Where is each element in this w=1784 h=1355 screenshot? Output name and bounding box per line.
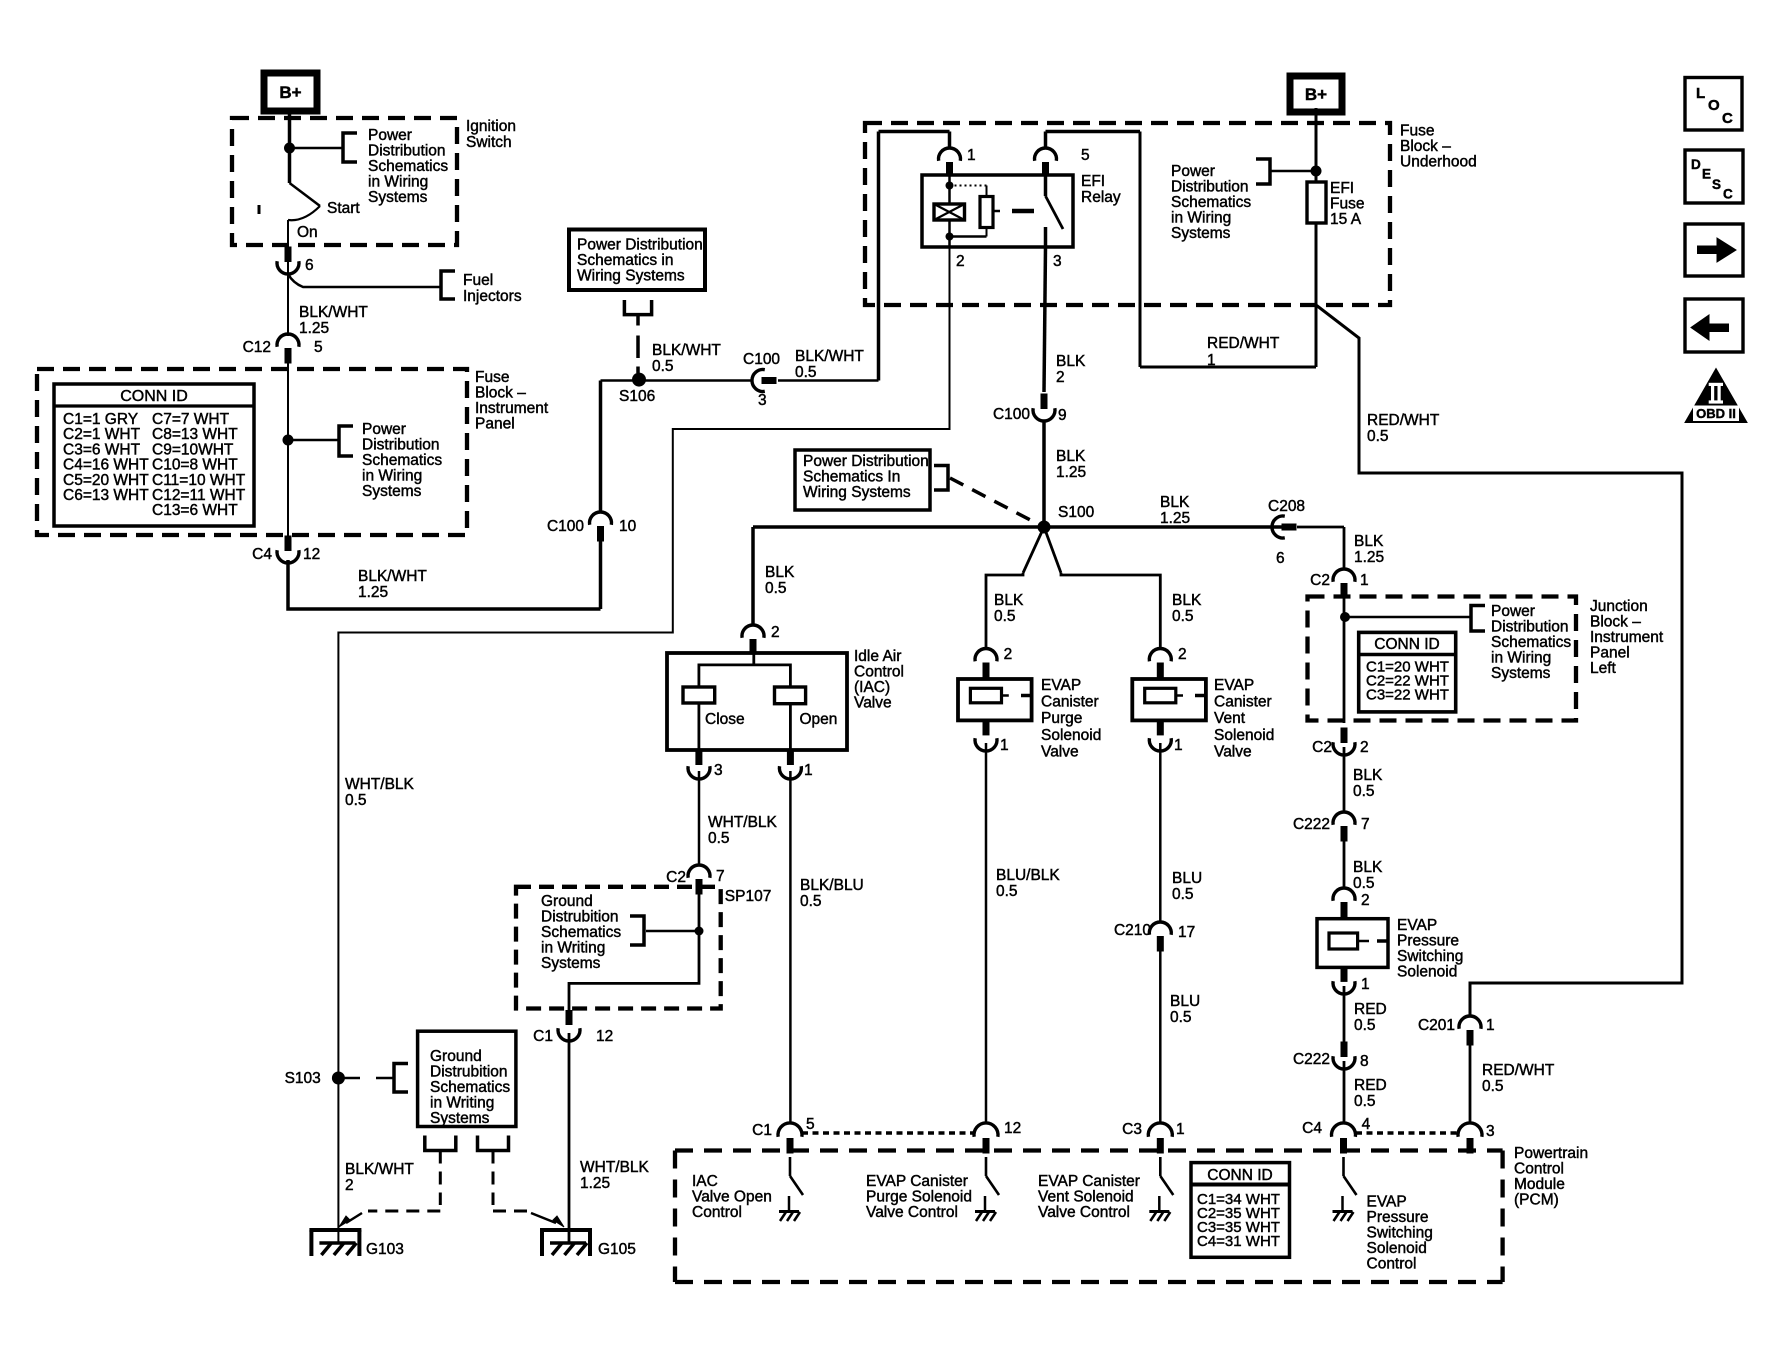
svg-text:C: C — [1723, 187, 1733, 202]
svg-text:SP107: SP107 — [725, 888, 772, 905]
svg-text:Wiring Systems: Wiring Systems — [803, 484, 911, 501]
svg-text:in Wiring: in Wiring — [1171, 210, 1231, 227]
svg-text:1.25: 1.25 — [1056, 464, 1086, 481]
svg-text:Schematics: Schematics — [1491, 634, 1571, 651]
svg-text:3: 3 — [1053, 253, 1062, 270]
svg-text:2: 2 — [1360, 739, 1369, 756]
svg-text:BLK/BLU: BLK/BLU — [800, 877, 864, 894]
svg-text:Block –: Block – — [1400, 138, 1451, 155]
svg-text:EFI: EFI — [1081, 173, 1105, 190]
svg-text:EVAP Canister: EVAP Canister — [866, 1173, 968, 1190]
svg-text:3: 3 — [1486, 1123, 1495, 1140]
svg-text:Canister: Canister — [1041, 694, 1099, 711]
svg-text:EVAP: EVAP — [1367, 1194, 1407, 1211]
svg-text:RED: RED — [1354, 1001, 1387, 1018]
svg-text:Open: Open — [800, 711, 838, 728]
svg-text:Control: Control — [1367, 1256, 1417, 1273]
svg-text:Systems: Systems — [368, 189, 428, 206]
svg-text:(PCM): (PCM) — [1514, 1192, 1559, 1209]
svg-text:2: 2 — [956, 253, 965, 270]
svg-text:Junction: Junction — [1590, 598, 1648, 615]
svg-text:WHT/BLK: WHT/BLK — [345, 776, 415, 793]
svg-text:0.5: 0.5 — [1170, 1009, 1192, 1026]
svg-text:5: 5 — [1081, 147, 1090, 164]
svg-text:RED/WHT: RED/WHT — [1367, 412, 1440, 429]
svg-text:S: S — [1712, 177, 1721, 192]
svg-text:Close: Close — [705, 711, 745, 728]
svg-text:12: 12 — [303, 546, 320, 563]
svg-text:0.5: 0.5 — [1367, 428, 1389, 445]
svg-text:2: 2 — [1178, 646, 1187, 663]
svg-text:C210: C210 — [1114, 922, 1151, 939]
svg-text:Ground: Ground — [541, 893, 593, 910]
svg-text:1: 1 — [1000, 737, 1009, 754]
svg-text:Block –: Block – — [475, 385, 526, 402]
svg-text:Distrubition: Distrubition — [541, 909, 619, 926]
svg-text:Switch: Switch — [466, 134, 512, 151]
svg-text:BLK: BLK — [1172, 592, 1202, 609]
svg-text:Schematics: Schematics — [1171, 194, 1251, 211]
svg-text:0.5: 0.5 — [996, 883, 1018, 900]
svg-text:2: 2 — [1004, 646, 1013, 663]
svg-text:in Writing: in Writing — [430, 1095, 494, 1112]
svg-text:0.5: 0.5 — [708, 830, 730, 847]
svg-text:BLU: BLU — [1170, 993, 1200, 1010]
svg-text:10: 10 — [619, 518, 637, 535]
svg-text:BLK: BLK — [1056, 448, 1086, 465]
svg-text:BLK: BLK — [1353, 767, 1383, 784]
svg-text:G103: G103 — [366, 1241, 404, 1258]
svg-text:3: 3 — [714, 762, 723, 779]
svg-text:Solenoid: Solenoid — [1214, 727, 1274, 744]
svg-text:EVAP: EVAP — [1397, 917, 1437, 934]
svg-text:Block –: Block – — [1590, 614, 1641, 631]
svg-text:G105: G105 — [598, 1241, 636, 1258]
svg-text:EFI: EFI — [1330, 180, 1354, 197]
svg-text:1: 1 — [804, 762, 813, 779]
svg-text:EVAP Canister: EVAP Canister — [1038, 1173, 1140, 1190]
svg-text:in Wiring: in Wiring — [1491, 650, 1551, 667]
svg-text:Distribution: Distribution — [362, 437, 440, 454]
svg-text:Fuse: Fuse — [475, 369, 509, 386]
svg-text:IAC: IAC — [692, 1173, 718, 1190]
svg-text:RED/WHT: RED/WHT — [1207, 335, 1280, 352]
svg-text:15 A: 15 A — [1330, 211, 1362, 228]
svg-text:BLK: BLK — [1160, 494, 1190, 511]
svg-text:Injectors: Injectors — [463, 288, 522, 305]
svg-text:0.5: 0.5 — [1353, 875, 1375, 892]
svg-text:Ground: Ground — [430, 1048, 482, 1065]
svg-text:9: 9 — [1058, 407, 1067, 424]
svg-text:Systems: Systems — [1171, 225, 1231, 242]
svg-text:Power: Power — [368, 127, 412, 144]
svg-text:0.5: 0.5 — [994, 608, 1016, 625]
svg-text:BLK: BLK — [1056, 353, 1086, 370]
svg-text:Systems: Systems — [362, 483, 422, 500]
svg-text:C1: C1 — [752, 1122, 772, 1139]
svg-text:Pressure: Pressure — [1397, 933, 1459, 950]
svg-text:E: E — [1702, 167, 1711, 182]
svg-text:S103: S103 — [285, 1070, 321, 1087]
svg-text:Valve Control: Valve Control — [866, 1204, 958, 1221]
svg-text:BLU/BLK: BLU/BLK — [996, 867, 1060, 884]
svg-text:BLK/WHT: BLK/WHT — [345, 1161, 414, 1178]
svg-text:Fuse: Fuse — [1330, 196, 1364, 213]
svg-text:Left: Left — [1590, 660, 1617, 677]
svg-text:C3: C3 — [1122, 1121, 1142, 1138]
svg-text:C12: C12 — [243, 339, 271, 356]
svg-text:12: 12 — [1004, 1120, 1021, 1137]
svg-text:C2: C2 — [1312, 739, 1332, 756]
svg-text:12: 12 — [596, 1028, 613, 1045]
svg-text:Vent: Vent — [1214, 710, 1246, 727]
svg-text:Power: Power — [362, 421, 406, 438]
svg-text:BLU: BLU — [1172, 870, 1202, 887]
svg-text:Systems: Systems — [1491, 665, 1551, 682]
svg-text:C201: C201 — [1418, 1017, 1455, 1034]
svg-text:CONN ID: CONN ID — [1374, 636, 1439, 653]
svg-text:2: 2 — [1361, 892, 1370, 909]
svg-text:C: C — [1722, 110, 1733, 127]
svg-text:Schematics: Schematics — [430, 1079, 510, 1096]
svg-text:Distrubition: Distrubition — [430, 1064, 508, 1081]
svg-text:1: 1 — [1361, 976, 1370, 993]
svg-text:Valve Open: Valve Open — [692, 1189, 772, 1206]
svg-text:0.5: 0.5 — [1354, 1093, 1376, 1110]
svg-text:Pressure: Pressure — [1367, 1209, 1429, 1226]
svg-text:BLK/WHT: BLK/WHT — [358, 568, 427, 585]
svg-text:Powertrain: Powertrain — [1514, 1145, 1588, 1162]
svg-text:Control: Control — [854, 664, 904, 681]
svg-text:WHT/BLK: WHT/BLK — [580, 1159, 650, 1176]
svg-text:Panel: Panel — [1590, 645, 1630, 662]
svg-text:Ignition: Ignition — [466, 118, 516, 135]
svg-text:6: 6 — [1276, 550, 1285, 567]
svg-text:Module: Module — [1514, 1176, 1565, 1193]
svg-text:Vent Solenoid: Vent Solenoid — [1038, 1189, 1134, 1206]
svg-text:1: 1 — [1207, 352, 1216, 369]
svg-text:C1: C1 — [533, 1028, 553, 1045]
svg-text:0.5: 0.5 — [345, 792, 367, 809]
svg-text:Control: Control — [692, 1204, 742, 1221]
svg-text:Systems: Systems — [541, 955, 601, 972]
svg-text:BLK/WHT: BLK/WHT — [652, 342, 721, 359]
svg-text:L: L — [1696, 85, 1705, 102]
svg-text:Power Distribution: Power Distribution — [577, 237, 703, 254]
svg-text:2: 2 — [771, 624, 780, 641]
svg-text:1: 1 — [1486, 1017, 1495, 1034]
svg-text:in Wiring: in Wiring — [368, 174, 428, 191]
svg-text:C100: C100 — [743, 351, 780, 368]
svg-text:Instrument: Instrument — [1590, 629, 1664, 646]
svg-text:BLK: BLK — [1354, 533, 1384, 550]
svg-text:Underhood: Underhood — [1400, 154, 1477, 171]
svg-text:0.5: 0.5 — [1482, 1078, 1504, 1095]
svg-text:3: 3 — [758, 392, 767, 409]
svg-text:0.5: 0.5 — [1353, 783, 1375, 800]
svg-text:Valve: Valve — [1214, 743, 1252, 760]
svg-text:0.5: 0.5 — [1172, 886, 1194, 903]
svg-text:Canister: Canister — [1214, 694, 1272, 711]
svg-text:Start: Start — [327, 200, 360, 217]
svg-text:(IAC): (IAC) — [854, 679, 890, 696]
svg-text:Schematics: Schematics — [362, 452, 442, 469]
svg-text:1: 1 — [1174, 737, 1183, 754]
svg-text:B+: B+ — [279, 83, 301, 102]
svg-text:0.5: 0.5 — [1354, 1017, 1376, 1034]
svg-text:Solenoid: Solenoid — [1397, 964, 1457, 981]
svg-text:Purge Solenoid: Purge Solenoid — [866, 1189, 972, 1206]
svg-text:Idle Air: Idle Air — [854, 648, 901, 665]
svg-text:Instrument: Instrument — [475, 400, 549, 417]
svg-text:8: 8 — [1360, 1053, 1369, 1070]
svg-text:C3=22 WHT: C3=22 WHT — [1366, 687, 1449, 704]
svg-text:RED/WHT: RED/WHT — [1482, 1062, 1555, 1079]
svg-text:Power: Power — [1491, 603, 1535, 620]
svg-text:7: 7 — [1361, 816, 1370, 833]
svg-text:Distribution: Distribution — [1491, 619, 1569, 636]
svg-text:C2: C2 — [666, 869, 686, 886]
svg-text:Switching: Switching — [1397, 948, 1463, 965]
svg-text:Schematics in: Schematics in — [577, 252, 673, 269]
svg-text:Purge: Purge — [1041, 710, 1082, 727]
svg-text:Fuel: Fuel — [463, 272, 493, 289]
svg-text:O: O — [1708, 97, 1720, 114]
svg-text:Power Distribution: Power Distribution — [803, 453, 929, 470]
svg-text:Valve Control: Valve Control — [1038, 1204, 1130, 1221]
svg-text:S106: S106 — [619, 388, 655, 405]
svg-text:0.5: 0.5 — [1172, 608, 1194, 625]
svg-text:WHT/BLK: WHT/BLK — [708, 814, 778, 831]
svg-text:BLK/WHT: BLK/WHT — [299, 304, 368, 321]
svg-text:OBD II: OBD II — [1696, 406, 1736, 421]
svg-text:Distribution: Distribution — [1171, 179, 1249, 196]
svg-text:0.5: 0.5 — [795, 364, 817, 381]
svg-text:Schematics: Schematics — [368, 158, 448, 175]
svg-text:C4: C4 — [1302, 1120, 1322, 1137]
svg-text:2: 2 — [345, 1177, 354, 1194]
svg-text:S100: S100 — [1058, 504, 1095, 521]
svg-text:1.25: 1.25 — [358, 584, 388, 601]
svg-text:BLK/WHT: BLK/WHT — [795, 348, 864, 365]
svg-text:Relay: Relay — [1081, 189, 1121, 206]
svg-text:4: 4 — [1362, 1116, 1371, 1133]
svg-text:0.5: 0.5 — [800, 893, 822, 910]
svg-text:C208: C208 — [1268, 498, 1305, 515]
svg-text:0.5: 0.5 — [765, 580, 787, 597]
svg-text:D: D — [1691, 157, 1701, 172]
svg-text:Power: Power — [1171, 163, 1215, 180]
svg-text:Valve: Valve — [1041, 743, 1079, 760]
svg-text:Solenoid: Solenoid — [1367, 1240, 1427, 1257]
svg-text:BLK: BLK — [765, 564, 795, 581]
svg-text:0.5: 0.5 — [652, 358, 674, 375]
svg-text:1.25: 1.25 — [1354, 549, 1384, 566]
svg-text:C100: C100 — [547, 518, 584, 535]
svg-text:1.25: 1.25 — [1160, 510, 1190, 527]
svg-text:Fuse: Fuse — [1400, 123, 1434, 140]
svg-text:B+: B+ — [1305, 85, 1327, 104]
svg-text:Panel: Panel — [475, 416, 515, 433]
svg-text:in Wiring: in Wiring — [362, 468, 422, 485]
svg-text:Control: Control — [1514, 1161, 1564, 1178]
svg-text:EVAP: EVAP — [1041, 677, 1081, 694]
svg-text:CONN ID: CONN ID — [120, 388, 188, 405]
svg-text:5: 5 — [314, 339, 323, 356]
svg-text:Valve: Valve — [854, 695, 892, 712]
svg-text:7: 7 — [716, 868, 725, 885]
svg-text:C222: C222 — [1293, 1051, 1330, 1068]
svg-text:in Writing: in Writing — [541, 940, 605, 957]
svg-text:Schematics: Schematics — [541, 924, 621, 941]
svg-text:C6=13 WHT: C6=13 WHT — [63, 487, 149, 504]
svg-text:1: 1 — [967, 147, 976, 164]
svg-text:1.25: 1.25 — [580, 1175, 610, 1192]
svg-text:EVAP: EVAP — [1214, 677, 1254, 694]
svg-text:On: On — [297, 224, 318, 241]
svg-text:RED: RED — [1354, 1077, 1387, 1094]
svg-text:BLK: BLK — [1353, 859, 1383, 876]
svg-text:6: 6 — [305, 257, 314, 274]
svg-text:Solenoid: Solenoid — [1041, 727, 1101, 744]
svg-text:CONN ID: CONN ID — [1207, 1167, 1272, 1184]
svg-text:17: 17 — [1178, 924, 1195, 941]
svg-text:2: 2 — [1056, 369, 1065, 386]
svg-text:C100: C100 — [993, 406, 1030, 423]
svg-text:Distribution: Distribution — [368, 143, 446, 160]
svg-text:Systems: Systems — [430, 1110, 490, 1127]
svg-text:1: 1 — [1360, 572, 1369, 589]
svg-text:C4: C4 — [252, 546, 272, 563]
svg-text:C222: C222 — [1293, 816, 1330, 833]
svg-text:BLK: BLK — [994, 592, 1024, 609]
svg-text:Schematics In: Schematics In — [803, 469, 900, 486]
svg-text:1: 1 — [1176, 1121, 1185, 1138]
svg-text:5: 5 — [806, 1116, 815, 1133]
svg-text:C4=31 WHT: C4=31 WHT — [1197, 1233, 1280, 1250]
svg-text:Switching: Switching — [1367, 1225, 1433, 1242]
svg-text:Wiring Systems: Wiring Systems — [577, 268, 685, 285]
svg-text:C2: C2 — [1310, 572, 1330, 589]
svg-text:C13=6 WHT: C13=6 WHT — [152, 502, 238, 519]
svg-text:1.25: 1.25 — [299, 320, 329, 337]
